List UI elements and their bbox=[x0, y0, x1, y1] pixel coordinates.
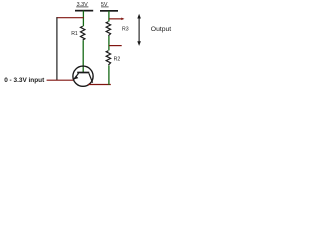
wire: R3 to R2 (green) bbox=[108, 36, 110, 50]
resistor R2 bbox=[106, 51, 110, 65]
svg-text:3.3V: 3.3V bbox=[77, 2, 88, 8]
svg-text:R2: R2 bbox=[114, 57, 121, 63]
label 3.3V bbox=[76, 2, 88, 8]
wire: input to transistor emitter (red, bottom left) bbox=[47, 79, 74, 81]
wire: output tap lower stub (red) bbox=[109, 45, 122, 47]
resistor R3 bbox=[106, 22, 110, 36]
annotation: output range double arrow bbox=[137, 14, 141, 46]
wire: output tap upper stub with arrow (red) bbox=[109, 18, 124, 21]
svg-text:5V: 5V bbox=[101, 2, 108, 8]
svg-text:0 - 3.3V input: 0 - 3.3V input bbox=[4, 77, 45, 84]
transistor Q1 (NPN, base up) bbox=[73, 66, 93, 86]
svg-text:R1: R1 bbox=[71, 31, 78, 37]
power rail 3.3V bbox=[75, 10, 93, 12]
wire: 3.3V rail down to R1 (green) bbox=[82, 11, 84, 27]
svg-text:R3: R3 bbox=[122, 27, 129, 33]
svg-text:Output: Output bbox=[151, 26, 172, 33]
label 5V bbox=[101, 2, 109, 8]
power rail 5V bbox=[100, 10, 118, 12]
wire: 5V rail down to R3 (green) bbox=[108, 11, 110, 22]
wire: transistor collector to R2 bottom (red, bottom) bbox=[88, 84, 111, 86]
wire: R1 to transistor collector area (green) bbox=[82, 40, 84, 72]
resistor R1 bbox=[81, 26, 85, 40]
wire: junction to input column (red, top horizontal) bbox=[56, 17, 83, 19]
wire: input column vertical (black) bbox=[56, 17, 58, 80]
wire: R2 down to bottom rail (green) bbox=[108, 65, 110, 85]
